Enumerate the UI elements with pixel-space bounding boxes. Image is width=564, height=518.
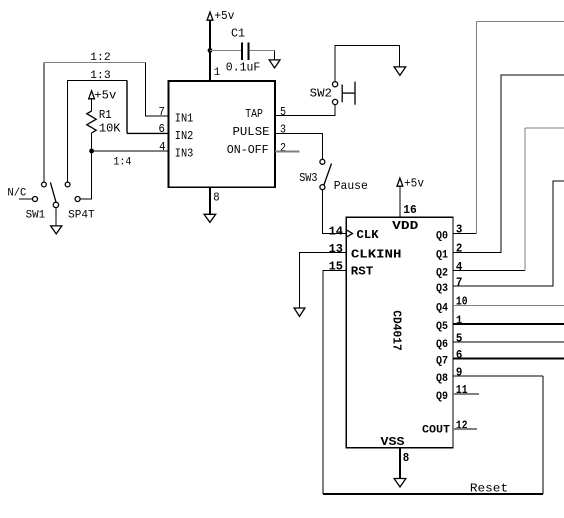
- svg-text:Reset: Reset: [470, 482, 508, 496]
- svg-text:6: 6: [159, 122, 165, 136]
- ground (SW1): [51, 226, 62, 234]
- Q9 stub: [453, 393, 479, 395]
- svg-text:SW1: SW1: [26, 210, 46, 222]
- svg-text:3: 3: [280, 123, 286, 137]
- svg-text:RST: RST: [351, 264, 373, 278]
- IC U2 right labels Q0-Q9, COUT: [422, 231, 450, 437]
- wire SW1 throw 4 riser: [80, 151, 91, 199]
- wire SW3 to CLK (pin 14): [322, 190, 346, 234]
- Reset bottom wire: [323, 493, 543, 495]
- svg-text:4: 4: [456, 260, 463, 274]
- svg-text:5: 5: [280, 105, 286, 119]
- ground (CLKINH): [294, 308, 305, 316]
- power +5v arrow (C1 top): [207, 9, 234, 23]
- svg-text:N/C: N/C: [7, 188, 26, 200]
- svg-text:CLKINH: CLKINH: [351, 247, 402, 261]
- svg-text:3: 3: [456, 223, 463, 237]
- svg-text:SW2: SW2: [310, 87, 332, 101]
- resistor R1 10K: [87, 99, 121, 151]
- svg-text:IN3: IN3: [175, 147, 194, 161]
- wire RST (pin 15) to Reset net: [323, 271, 346, 494]
- svg-text:0.1uF: 0.1uF: [226, 60, 260, 74]
- svg-text:C1: C1: [231, 26, 245, 40]
- svg-text:CLK: CLK: [357, 228, 380, 242]
- contact 1:2: [42, 182, 47, 187]
- ground (C1): [269, 60, 280, 68]
- svg-text:12: 12: [456, 418, 468, 432]
- wire C1 to ground: [274, 50, 276, 60]
- svg-text:13: 13: [329, 242, 343, 256]
- svg-text:Q8: Q8: [436, 373, 448, 385]
- svg-text:SW3: SW3: [299, 171, 317, 185]
- pole contact: [53, 202, 58, 207]
- wire Q7 net: [453, 358, 564, 360]
- svg-text:Q9: Q9: [436, 391, 448, 403]
- wire IC1 pin 8 to ground: [209, 187, 211, 214]
- wire Q2 net: [453, 128, 564, 271]
- svg-text:Q5: Q5: [436, 321, 448, 333]
- clock wedge (CLK pin): [346, 230, 352, 237]
- switch SW3: [299, 159, 368, 193]
- COUT stub: [453, 428, 477, 430]
- wire CLKINH (pin 13) to ground: [300, 253, 347, 308]
- wire Q1 net: [453, 75, 564, 253]
- ON-OFF pin 2 stub: [275, 151, 300, 153]
- svg-text:VDD: VDD: [392, 219, 418, 233]
- svg-text:+5v: +5v: [94, 88, 116, 102]
- svg-text:Q1: Q1: [436, 250, 448, 262]
- IC U2 left labels: [351, 219, 419, 449]
- wire 1:2 net (SW1 throw 1 to IN1): [44, 52, 168, 182]
- svg-text:CD4017: CD4017: [389, 310, 403, 351]
- svg-text:14: 14: [329, 224, 343, 238]
- svg-text:TAP: TAP: [245, 107, 263, 121]
- svg-text:5: 5: [456, 331, 463, 345]
- svg-text:10: 10: [456, 294, 468, 308]
- wire 1:3 net (SW1 throw 2 to IN2): [68, 70, 169, 182]
- svg-text:8: 8: [213, 191, 219, 205]
- junction node (R1 / IN3 / SW1 throw 4): [89, 149, 94, 154]
- svg-text:R1: R1: [99, 108, 112, 122]
- svg-text:VSS: VSS: [381, 435, 405, 449]
- svg-text:7: 7: [456, 275, 463, 289]
- wire PULSE net (pin 3 to SW3): [275, 133, 322, 159]
- switch SW1 SP4T: [7, 182, 95, 226]
- N/C stub: [19, 198, 32, 200]
- svg-text:SP4T: SP4T: [68, 210, 95, 222]
- wire Q0 net: [453, 21, 564, 233]
- pole wire to ground: [55, 208, 57, 226]
- wire VDD to +5v: [399, 186, 401, 217]
- svg-text:Q4: Q4: [436, 302, 448, 314]
- svg-text:1:3: 1:3: [90, 70, 111, 82]
- svg-text:Pause: Pause: [334, 179, 368, 193]
- svg-text:10K: 10K: [99, 122, 121, 136]
- svg-text:1:2: 1:2: [90, 52, 111, 64]
- contact 1:4: [75, 197, 80, 202]
- contact 1:3: [65, 182, 70, 187]
- svg-text:15: 15: [329, 260, 343, 274]
- svg-text:1: 1: [214, 67, 221, 79]
- ground (SW2): [394, 67, 406, 76]
- IC U2 CD4017 box: [346, 217, 453, 448]
- contact N/C: [33, 197, 38, 202]
- wire Q6 net: [453, 341, 564, 343]
- IC U1 box: [168, 81, 275, 187]
- wire Q5 net: [453, 323, 564, 325]
- svg-text:4: 4: [159, 140, 165, 154]
- svg-text:Q0: Q0: [436, 231, 448, 243]
- svg-text:+5v: +5v: [404, 177, 424, 191]
- wire IN3 net: [92, 150, 169, 152]
- svg-text:9: 9: [456, 365, 463, 379]
- svg-text:PULSE: PULSE: [233, 125, 270, 139]
- svg-text:6: 6: [456, 348, 463, 362]
- svg-text:IN1: IN1: [175, 111, 194, 125]
- power +5v arrow (R1 top): [89, 88, 117, 102]
- power +5v arrow (VDD): [397, 177, 424, 191]
- wire VSS (pin 8) to ground: [399, 448, 401, 479]
- svg-text:Q7: Q7: [436, 356, 448, 368]
- capacitor C1: [210, 26, 275, 74]
- svg-text:2: 2: [280, 141, 286, 155]
- svg-text:IN2: IN2: [175, 129, 194, 143]
- svg-text:Q3: Q3: [436, 283, 448, 295]
- pushbutton SW2: [310, 82, 355, 105]
- ground (IC1 pin 8): [204, 214, 216, 222]
- svg-text:2: 2: [456, 242, 463, 256]
- IC U1 labels: [175, 107, 270, 161]
- svg-text:7: 7: [159, 105, 165, 119]
- wire TAP net (pin 5 to SW2): [275, 105, 335, 116]
- wire SW2 to ground: [335, 45, 400, 81]
- svg-text:16: 16: [403, 203, 417, 217]
- switch arm: [50, 182, 56, 202]
- wire Q3 net: [453, 181, 564, 286]
- svg-text:Q2: Q2: [436, 268, 448, 280]
- wire Q8 riser (to Reset net): [542, 376, 544, 494]
- svg-text:1:4: 1:4: [113, 156, 131, 168]
- svg-text:Q6: Q6: [436, 339, 448, 351]
- wire +5v to IC1 pin 1: [209, 20, 211, 81]
- svg-text:8: 8: [403, 451, 410, 465]
- svg-text:ON-OFF: ON-OFF: [227, 143, 269, 157]
- junction node (C1 / +5v): [208, 48, 213, 53]
- svg-text:+5v: +5v: [214, 9, 234, 23]
- svg-text:COUT: COUT: [422, 425, 450, 437]
- ground (VSS): [394, 479, 406, 488]
- wire Q8 net: [453, 375, 543, 377]
- wire Q4 net: [453, 304, 564, 306]
